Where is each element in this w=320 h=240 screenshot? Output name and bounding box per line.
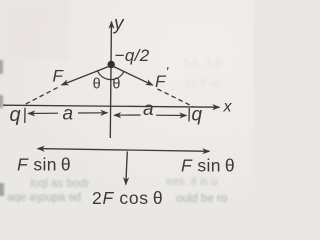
force F' (right), solid with arrow — [112, 66, 152, 85]
svg-text:əqe əɿɒupa ɘd: əqe əɿɒupa ɘd — [7, 192, 81, 204]
ghost marks left edge — [0, 60, 4, 196]
ghost bleed-through text (top right) — [183, 57, 221, 89]
svg-text:loql as bodr: loql as bodr — [30, 178, 90, 190]
page background — [0, 0, 253, 215]
y-axis — [110, 26, 111, 138]
dashed continuation to right charge — [158, 89, 194, 107]
dashed continuation to left charge — [25, 88, 58, 105]
svg-text:x: x — [223, 99, 233, 116]
ghost bleed-through text (bottom left) — [7, 178, 90, 204]
svg-text:ould be ro: ould be ro — [176, 193, 227, 205]
ghost bleed-through text (bottom right) — [166, 176, 227, 205]
svg-text:F sin θ: F sin θ — [181, 156, 235, 176]
svg-text:2F cos θ: 2F cos θ — [92, 188, 163, 208]
svg-text:y: y — [112, 14, 125, 35]
vertical 2F cos component — [126, 152, 128, 185]
right a-dimension arrows — [114, 114, 141, 116]
svg-text:a: a — [63, 104, 74, 125]
force F (left), solid with arrow — [62, 66, 111, 85]
svg-text:F sin θ: F sin θ — [17, 155, 71, 175]
svg-text:F: F — [155, 72, 167, 91]
right tick — [188, 108, 190, 122]
svg-text:q: q — [192, 105, 203, 126]
charge dot -q/2 — [108, 61, 115, 68]
svg-text:θ: θ — [112, 77, 120, 93]
svg-text:ees. it is u: ees. it is u — [166, 176, 218, 188]
svg-text:a: a — [143, 99, 154, 120]
svg-text:ε1 6 υο: ε1 6 υο — [186, 77, 221, 89]
svg-text:5·b ·3 8: 5·b ·3 8 — [183, 57, 221, 69]
svg-text:θ: θ — [93, 77, 101, 93]
svg-text:F: F — [53, 67, 65, 86]
svg-text:q: q — [10, 104, 21, 126]
component diagram: horizontal double arrow — [38, 149, 121, 150]
left a-dimension arrows — [28, 112, 58, 114]
svg-text:−q/2: −q/2 — [115, 46, 150, 65]
angle arc — [97, 70, 124, 79]
x-axis — [3, 105, 220, 107]
left tick — [24, 108, 26, 123]
